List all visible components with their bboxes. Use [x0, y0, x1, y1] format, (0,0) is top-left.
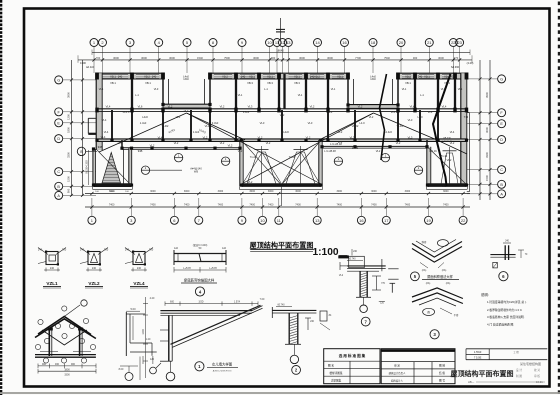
- svg-text:17: 17: [384, 218, 389, 223]
- svg-text:1300: 1300: [80, 61, 86, 65]
- interior vertical walls top band: [131, 74, 133, 109]
- svg-text:VLR3: VLR3: [397, 124, 404, 128]
- svg-text:D: D: [500, 138, 503, 142]
- svg-text:8.00: 8.00: [119, 368, 124, 371]
- svg-text:VL4.6: VL4.6: [391, 110, 398, 114]
- parapet detail: [126, 313, 145, 315]
- svg-text:18: 18: [371, 40, 376, 45]
- right dimension lines: [479, 60, 481, 200]
- main roof plan: [55, 18, 506, 224]
- svg-text:B: B: [80, 150, 82, 154]
- small box detail: [320, 311, 327, 321]
- svg-text:VL2: VL2: [220, 105, 225, 109]
- svg-text:3900: 3900: [67, 92, 71, 98]
- svg-text:240: 240: [418, 75, 423, 79]
- interior wall band y109: [96, 108, 467, 110]
- interior vertical walls mid band: [111, 110, 113, 140]
- svg-text:10: 10: [267, 40, 272, 45]
- svg-text:VL3: VL3: [408, 118, 413, 122]
- svg-text:斜脊: 斜脊: [422, 240, 427, 244]
- top axis circles: [90, 39, 98, 47]
- svg-text:94B: 94B: [98, 145, 103, 149]
- svg-text:C: C: [57, 170, 60, 174]
- svg-text:VL4: VL4: [428, 110, 433, 114]
- marker B: [77, 147, 85, 155]
- svg-text:L4.0: L4.0: [359, 121, 365, 125]
- left bay protrusion: [88, 117, 96, 119]
- svg-text:VL2: VL2: [150, 144, 155, 148]
- right tower: [427, 147, 431, 187]
- svg-text:7400: 7400: [218, 204, 224, 207]
- svg-text:7400: 7400: [337, 204, 343, 207]
- matchline symbol: [279, 18, 281, 40]
- detail markers: [141, 166, 149, 174]
- svg-text:VL2: VL2: [450, 141, 455, 145]
- gable roof detail: [38, 317, 91, 335]
- svg-text:1:100: 1:100: [313, 247, 339, 258]
- svg-text:VL3: VL3: [154, 87, 159, 91]
- svg-text:240: 240: [137, 267, 142, 270]
- svg-text:设 计: 设 计: [516, 368, 522, 372]
- svg-text:1500: 1500: [110, 191, 116, 193]
- svg-text:屋顶结构平面布置图: 屋顶结构平面布置图: [250, 241, 314, 250]
- svg-text:工 程: 工 程: [513, 350, 519, 354]
- svg-text:VL2: VL2: [203, 136, 208, 140]
- svg-text:VL2: VL2: [248, 180, 253, 184]
- svg-text:7 5.0E: 7 5.0E: [474, 356, 482, 360]
- svg-text:梁底筋弯钩锚固大样: 梁底筋弯钩锚固大样: [184, 278, 215, 283]
- svg-text:300: 300: [413, 56, 418, 60]
- svg-text:VB.1: VB.1: [145, 81, 151, 85]
- svg-text:VL4: VL4: [442, 105, 447, 109]
- svg-text:L+57/8: L+57/8: [209, 267, 217, 270]
- svg-text:3000: 3000: [249, 190, 255, 193]
- stair shaft divider: [123, 149, 125, 184]
- svg-text:VB.2: VB.2: [144, 74, 150, 78]
- svg-text:1500: 1500: [485, 175, 489, 181]
- svg-text:G: G: [500, 77, 503, 81]
- svg-text:1340: 1340: [370, 78, 376, 81]
- svg-text:VL2: VL2: [447, 158, 452, 162]
- svg-text:VB.1: VB.1: [110, 81, 116, 85]
- svg-text:VL2: VL2: [376, 149, 381, 153]
- selection table: [324, 349, 380, 384]
- bottom axis circles: [88, 216, 96, 224]
- right axis circles: [498, 75, 506, 83]
- svg-text:19: 19: [426, 218, 431, 223]
- svg-text:VL2: VL2: [339, 274, 344, 277]
- svg-text:71.16: 71.16: [441, 154, 448, 158]
- svg-text:71.28: 71.28: [250, 155, 257, 159]
- svg-text:VL2: VL2: [280, 113, 285, 117]
- svg-text:14: 14: [315, 40, 320, 45]
- svg-text:7400: 7400: [150, 204, 156, 207]
- svg-text:G: G: [57, 78, 60, 82]
- svg-text:VB.1: VB.1: [444, 81, 450, 85]
- svg-text:120: 120: [150, 358, 155, 361]
- svg-text:说明:: 说明:: [481, 292, 489, 297]
- svg-text:Sd.360: Sd.360: [451, 65, 460, 69]
- svg-text:VB.1: VB.1: [424, 74, 430, 78]
- svg-text:240: 240: [80, 248, 85, 252]
- svg-text:VB.1: VB.1: [267, 74, 273, 78]
- svg-text:3000: 3000: [253, 56, 259, 60]
- svg-text:VB.1: VB.1: [405, 81, 411, 85]
- svg-text:1340: 1340: [183, 78, 189, 81]
- svg-text:600: 600: [170, 301, 175, 304]
- svg-text:240: 240: [449, 75, 454, 79]
- svg-text:900: 900: [71, 363, 76, 366]
- svg-text:VL2: VL2: [238, 149, 243, 153]
- eave detail 1: [160, 310, 252, 312]
- svg-text:VZL4: VZL4: [133, 281, 145, 286]
- svg-text:16-21: 16-21: [536, 380, 543, 384]
- svg-text:脊: 脊: [427, 310, 430, 314]
- svg-text:VL3: VL3: [350, 136, 355, 140]
- valley detail 5: [412, 242, 462, 258]
- column detail VZL4: [133, 252, 145, 265]
- svg-text:7.00: 7.00: [260, 298, 265, 301]
- svg-text:VL4: VL4: [450, 130, 455, 134]
- svg-text:23: 23: [457, 40, 462, 45]
- top notch right: [347, 73, 349, 105]
- T detail 6: [490, 254, 515, 256]
- svg-text:3000: 3000: [295, 190, 301, 193]
- svg-text:900: 900: [67, 188, 71, 193]
- svg-text:VL2: VL2: [174, 141, 179, 145]
- svg-text:VL2: VL2: [396, 141, 401, 145]
- svg-text:某住宅楼结构图: 某住宅楼结构图: [520, 361, 541, 366]
- svg-text:VL4: VL4: [410, 105, 415, 109]
- svg-text:L4x0: L4x0: [283, 130, 289, 134]
- svg-text:平脊: 平脊: [454, 313, 459, 317]
- svg-text:7500: 7500: [224, 56, 230, 60]
- svg-text:770: 770: [454, 56, 459, 60]
- svg-text:240: 240: [310, 75, 315, 79]
- roof hip diagonals left: [126, 113, 187, 140]
- svg-text:1000: 1000: [352, 146, 358, 150]
- svg-text:20: 20: [399, 40, 404, 45]
- svg-text:240: 240: [50, 267, 55, 270]
- svg-text:60.740: 60.740: [277, 304, 285, 306]
- svg-text:VL4: VL4: [104, 130, 109, 134]
- svg-text:VZL2: VZL2: [88, 281, 100, 286]
- svg-text:L-1: L-1: [264, 87, 268, 91]
- svg-text:过梁图集: 过梁图集: [331, 379, 342, 383]
- svg-text:VL4.C: VL4.C: [122, 110, 129, 114]
- title block middle: [381, 349, 455, 384]
- svg-text:(2A): (2A): [446, 282, 451, 285]
- svg-text:94B: 94B: [138, 149, 143, 153]
- svg-text:240: 240: [92, 267, 97, 270]
- svg-text:5.00: 5.00: [130, 307, 136, 311]
- svg-text:VL4: VL4: [328, 110, 333, 114]
- column detail VZL1: [46, 252, 58, 265]
- svg-text:VL3: VL3: [248, 105, 253, 109]
- svg-text:选 用 标 准 图 集: 选 用 标 准 图 集: [339, 353, 366, 358]
- svg-text:7400: 7400: [371, 204, 377, 207]
- recess bottom wall right: [322, 145, 427, 147]
- svg-text:VL2: VL2: [358, 105, 363, 109]
- svg-text:(2A): (2A): [442, 269, 447, 272]
- svg-text:3000: 3000: [327, 56, 333, 60]
- svg-text:建筑设计负责人: 建筑设计负责人: [389, 371, 406, 375]
- svg-text:7400: 7400: [405, 204, 411, 207]
- top dimension line: [78, 59, 472, 61]
- svg-text:VL2: VL2: [228, 144, 233, 148]
- svg-text:(2A): (2A): [422, 269, 427, 272]
- bracket detail 7: [338, 255, 348, 258]
- svg-text:VB.1: VB.1: [249, 74, 255, 78]
- svg-text:(2A): (2A): [426, 282, 431, 285]
- svg-text:10: 10: [260, 218, 265, 223]
- svg-text:7400: 7400: [184, 204, 190, 207]
- svg-text:(4.20): (4.20): [467, 61, 474, 65]
- bracket detail 2: [272, 309, 316, 311]
- svg-text:WB: WB: [194, 170, 198, 174]
- center tower: [240, 140, 243, 186]
- stair dim line: [88, 150, 90, 185]
- svg-text:VL2: VL2: [258, 136, 263, 140]
- roof hip diagonals right: [319, 113, 374, 140]
- svg-text:7400: 7400: [249, 204, 255, 207]
- svg-text:7400: 7400: [268, 204, 274, 207]
- svg-text:3000: 3000: [184, 190, 190, 193]
- svg-text:1800: 1800: [64, 368, 70, 371]
- svg-text:3900: 3900: [485, 92, 489, 98]
- svg-text:结构设计人: 结构设计人: [391, 378, 404, 382]
- svg-text:VB.2: VB.2: [314, 74, 320, 78]
- svg-text:700: 700: [149, 248, 154, 252]
- svg-text:3300: 3300: [67, 152, 71, 158]
- svg-text:VB.2: VB.2: [405, 74, 411, 78]
- svg-text:VL4: VL4: [101, 135, 106, 139]
- svg-text:VLR2: VLR2: [352, 124, 359, 128]
- bottom scan line: [0, 392, 560, 394]
- svg-text:VL2: VL2: [266, 141, 271, 145]
- svg-text:700: 700: [96, 56, 101, 60]
- svg-text:4.门 窗过梁选用通 图.: 4.门 窗过梁选用通 图.: [487, 322, 514, 326]
- svg-text:240: 240: [118, 75, 123, 79]
- windows in top wall: [102, 74, 129, 78]
- title block: [324, 349, 548, 384]
- svg-text:VL2: VL2: [168, 105, 173, 109]
- svg-text:审 定: 审 定: [394, 364, 400, 368]
- svg-text:1200: 1200: [67, 114, 71, 120]
- svg-text:W1.16: W1.16: [429, 149, 437, 153]
- svg-text:13: 13: [286, 40, 291, 45]
- svg-text:VL1: VL1: [298, 93, 303, 97]
- left dimension lines: [71, 60, 73, 196]
- binding edge dashes: [0, 0, 2, 395]
- svg-text:HB—: HB—: [468, 380, 475, 384]
- svg-text:3000: 3000: [337, 190, 343, 193]
- svg-text:21: 21: [427, 40, 432, 45]
- svg-text:VL3: VL3: [408, 136, 413, 140]
- svg-text:L:G 28.48: L:G 28.48: [324, 149, 336, 153]
- svg-text:12d: 12d: [174, 247, 179, 250]
- title block right: [466, 348, 547, 350]
- svg-text:3300: 3300: [64, 373, 70, 376]
- svg-text:女儿墙大样图: 女儿墙大样图: [212, 361, 233, 366]
- svg-text:1.5%3: 1.5%3: [474, 350, 482, 354]
- svg-text:A: A: [57, 194, 60, 198]
- svg-text:7540: 7540: [384, 56, 390, 60]
- svg-text:VB.3: VB.3: [294, 81, 300, 85]
- svg-text:3000: 3000: [218, 190, 224, 193]
- svg-text:3000: 3000: [405, 190, 411, 193]
- svg-text:屋顶结构平面布置图: 屋顶结构平面布置图: [451, 369, 514, 378]
- svg-text:结 施: 结 施: [439, 371, 445, 375]
- svg-text:图 别: 图 别: [439, 364, 445, 368]
- svg-text:460: 460: [55, 363, 60, 366]
- svg-text:1500: 1500: [67, 176, 71, 182]
- svg-text:3000: 3000: [438, 56, 444, 60]
- svg-text:T13: T13: [464, 115, 469, 119]
- svg-text:3000: 3000: [169, 56, 175, 60]
- svg-text:240: 240: [125, 248, 130, 252]
- long valley diagonals: [243, 142, 281, 184]
- svg-text:VL2: VL2: [338, 130, 343, 134]
- lintel anchorage detail 4: [174, 253, 226, 255]
- crease line A: [380, 74, 387, 160]
- svg-text:240: 240: [241, 75, 246, 79]
- svg-text:C: C: [500, 168, 503, 172]
- left outer wall: [96, 73, 102, 150]
- svg-text:VL3: VL3: [260, 121, 265, 125]
- svg-text:7400: 7400: [295, 204, 301, 207]
- svg-text:7400: 7400: [109, 204, 115, 207]
- svg-text:VL2: VL2: [338, 140, 343, 144]
- svg-text:VL4: VL4: [118, 141, 123, 145]
- crease line B: [433, 74, 451, 186]
- svg-text:VL2: VL2: [184, 109, 189, 113]
- svg-text:VB.3: VB.3: [247, 81, 253, 85]
- svg-text:审 核: 审 核: [534, 374, 540, 378]
- svg-text:VL2: VL2: [310, 105, 315, 109]
- svg-text:2.板厚除注明者外均为 1 0 0.: 2.板厚除注明者外均为 1 0 0.: [487, 308, 523, 312]
- svg-text:900: 900: [271, 56, 276, 60]
- svg-text:VL1: VL1: [331, 87, 336, 91]
- svg-text:1800: 1800: [67, 127, 71, 133]
- svg-text:图 名: 图 名: [328, 364, 335, 368]
- details: [35, 240, 528, 381]
- svg-text:240: 240: [38, 248, 43, 252]
- svg-text:3000: 3000: [485, 127, 489, 133]
- svg-text:1.砼强度等级均为C20(详见 总 ).: 1.砼强度等级均为C20(详见 总 ).: [487, 300, 527, 304]
- svg-text:屋面斜脊做法大样: 屋面斜脊做法大样: [427, 274, 453, 279]
- svg-text:3.3x0: 3.3x0: [243, 110, 250, 114]
- svg-text:A#B#C#D#E#F2#3: A#B#C#D#E#F2#3: [213, 369, 232, 372]
- svg-text:VL6: VL6: [138, 105, 143, 109]
- svg-text:VL2: VL2: [442, 184, 447, 188]
- right tower bay roof: [441, 153, 458, 184]
- svg-text:VL4: VL4: [106, 105, 111, 109]
- interior wall band y140: [96, 139, 467, 142]
- outer top walls: [96, 73, 163, 79]
- svg-text:3.3x0: 3.3x0: [212, 121, 219, 125]
- bottom dimension lines: [85, 193, 470, 195]
- svg-text:14.4x0: 14.4x0: [384, 130, 392, 134]
- svg-text:VL4: VL4: [102, 118, 107, 122]
- svg-text:700: 700: [104, 248, 109, 252]
- svg-text:VB.1: VB.1: [294, 74, 300, 78]
- svg-text:VZL1: VZL1: [46, 281, 58, 286]
- right edge dashes: [558, 2, 560, 394]
- svg-text:VB.2: VB.2: [222, 74, 228, 78]
- svg-text:制 图: 制 图: [516, 374, 522, 378]
- top notch left: [162, 73, 164, 105]
- svg-text:L-1: L-1: [135, 93, 139, 97]
- svg-text:16: 16: [342, 40, 347, 45]
- svg-text:B: B: [57, 185, 60, 189]
- svg-text:VL2: VL2: [369, 115, 374, 119]
- svg-text:4.20: 4.20: [150, 297, 155, 300]
- svg-text:16: 16: [359, 218, 364, 223]
- center tower bay roofs: [247, 152, 276, 184]
- column detail VZL2: [88, 252, 100, 265]
- tower eave lines: [93, 188, 133, 190]
- svg-text:VL2: VL2: [176, 115, 181, 119]
- svg-text:校 对: 校 对: [534, 368, 540, 372]
- svg-text:VLR2: VLR2: [162, 124, 169, 128]
- svg-text:VB 730: VB 730: [443, 138, 451, 140]
- svg-text:900: 900: [42, 363, 47, 366]
- svg-text:3.板底筋伸入支座 长度详说明.: 3.板底筋伸入支座 长度详说明.: [487, 315, 525, 319]
- right eave outline: [468, 112, 470, 191]
- column squares: [92, 73, 469, 187]
- stair hatch triangle: [102, 153, 121, 184]
- svg-text:1540: 1540: [197, 56, 203, 60]
- svg-text:L4x0: L4x0: [142, 115, 148, 119]
- svg-text:1.4x0: 1.4x0: [140, 121, 147, 125]
- svg-text:VL4: VL4: [158, 136, 163, 140]
- svg-text:(梁高h>=240): (梁高h>=240): [193, 243, 208, 247]
- svg-text:Ad.3x0: Ad.3x0: [86, 65, 95, 69]
- svg-text:L4.0: L4.0: [417, 115, 423, 119]
- svg-text:3000: 3000: [141, 56, 147, 60]
- svg-text:3000: 3000: [371, 190, 377, 193]
- svg-text:VLR3: VLR3: [205, 124, 212, 128]
- svg-text:18640: 18640: [276, 48, 284, 52]
- svg-text:3000: 3000: [443, 190, 449, 193]
- svg-text:1.20: 1.20: [146, 338, 151, 341]
- svg-text:VB.1: VB.1: [337, 74, 343, 78]
- svg-text:VL1: VL1: [238, 93, 243, 97]
- svg-text:1200: 1200: [142, 329, 145, 335]
- svg-text:L+57/8: L+57/8: [183, 267, 191, 270]
- svg-text:9x150=1350: 9x150=1350: [86, 160, 89, 174]
- svg-text:7400: 7400: [443, 204, 449, 207]
- svg-text:22: 22: [461, 218, 466, 223]
- ridge detail 3: [412, 293, 463, 304]
- svg-text:图 号: 图 号: [439, 378, 445, 382]
- svg-text:D: D: [57, 137, 60, 141]
- svg-text:VB.3: VB.3: [267, 81, 273, 85]
- svg-text:13: 13: [315, 218, 320, 223]
- stair tower: [93, 149, 96, 186]
- svg-text:700: 700: [62, 248, 67, 252]
- svg-text:7700: 7700: [355, 56, 361, 60]
- recess bottom wall left: [122, 147, 240, 149]
- svg-text:3000: 3000: [150, 190, 156, 193]
- svg-text:3/2D: 3/2D: [198, 301, 203, 304]
- svg-text:1.57A: 1.57A: [234, 301, 241, 304]
- svg-text:E: E: [57, 121, 60, 125]
- svg-text:VL1: VL1: [402, 87, 407, 91]
- left axis circles: [55, 76, 63, 84]
- svg-text:60.740: 60.740: [348, 259, 356, 261]
